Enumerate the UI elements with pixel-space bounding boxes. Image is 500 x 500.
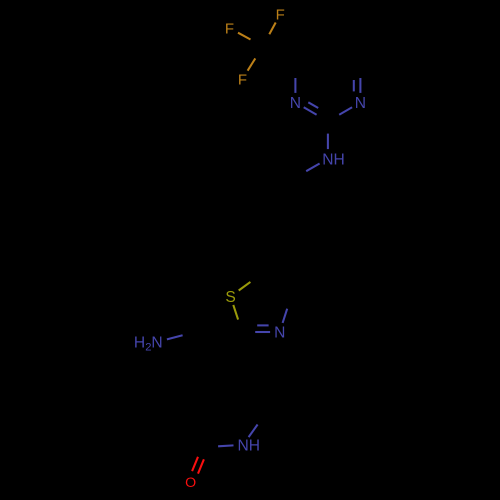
svg-text:N: N [274,325,285,342]
svg-text:S: S [225,289,235,306]
svg-text:F: F [276,7,285,24]
svg-text:F: F [238,71,247,88]
svg-text:O: O [185,475,196,491]
svg-text:NH: NH [322,151,345,168]
svg-text:F: F [225,21,234,38]
svg-text:N: N [290,95,301,112]
svg-text:N: N [355,95,366,112]
svg-text:NH: NH [238,438,261,455]
